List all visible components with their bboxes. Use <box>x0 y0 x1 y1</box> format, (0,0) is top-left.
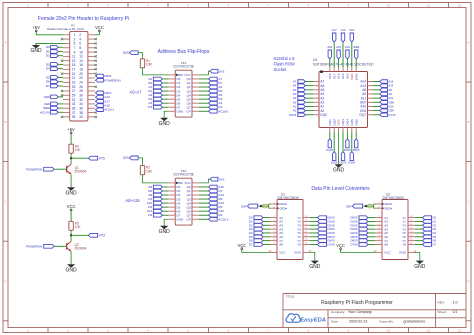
resistor R1 <box>140 59 152 68</box>
svg-text:CD74HC273E: CD74HC273E <box>173 173 195 177</box>
svg-text:WE#: WE# <box>354 73 358 80</box>
svg-text:Raspberry Pi Flash Programmer: Raspberry Pi Flash Programmer <box>321 300 393 306</box>
wire 3V3 to R2 <box>138 158 142 166</box>
ground <box>309 253 321 270</box>
net port D2V5 <box>351 223 376 227</box>
net port D6 <box>415 239 437 243</box>
power flag VCC (Q2) <box>67 204 76 221</box>
ic U1 SN74HC540N <box>269 192 312 259</box>
svg-text:40: 40 <box>79 115 83 119</box>
svg-text:A18: A18 <box>328 73 332 79</box>
svg-text:10R: 10R <box>146 169 153 173</box>
junction node VY3 <box>70 234 72 236</box>
net port A5 <box>293 88 314 92</box>
transistor Q2 2N3904 <box>67 241 87 251</box>
net port POWERON <box>95 78 121 82</box>
ground <box>159 219 171 235</box>
svg-text:DQ3: DQ3 <box>341 119 345 126</box>
svg-text:Date:: Date: <box>331 320 339 324</box>
net port D2 <box>148 205 168 209</box>
svg-text:D5V5: D5V5 <box>348 161 355 165</box>
svg-text:A8: A8 <box>279 243 283 247</box>
svg-text:ACLK1: ACLK1 <box>218 217 228 221</box>
svg-text:B: B <box>4 120 6 124</box>
svg-text:A15: A15 <box>345 45 350 49</box>
wire DIR to OE pins <box>363 204 375 208</box>
resistor R5 <box>69 221 81 230</box>
svg-text:grahamclemo: grahamclemo <box>404 320 426 324</box>
net flag 3V3 (VCC) <box>199 177 225 183</box>
svg-text:Your Company: Your Company <box>348 310 372 314</box>
svg-text:11: 11 <box>427 3 430 7</box>
svg-text:POWERON: POWERON <box>26 245 42 249</box>
svg-text:A18: A18 <box>327 45 332 49</box>
net port A18 <box>95 104 110 108</box>
svg-text:10: 10 <box>387 328 391 332</box>
svg-text:POWERON: POWERON <box>104 78 120 82</box>
svg-text:12: 12 <box>458 3 462 7</box>
wire Q1 emitter to ground <box>70 174 72 186</box>
net port D5 <box>199 205 223 209</box>
svg-text:3V3: 3V3 <box>219 69 225 73</box>
svg-text:D3: D3 <box>148 105 152 109</box>
net port OE# <box>373 100 395 104</box>
net port D2 <box>249 223 270 227</box>
svg-text:TITLE:: TITLE: <box>286 294 295 298</box>
ground <box>414 253 426 270</box>
svg-text:3V3: 3V3 <box>219 177 225 181</box>
svg-text:DQ2: DQ2 <box>332 119 336 126</box>
svg-text:DQ1: DQ1 <box>328 119 332 126</box>
svg-text:ACLK0: ACLK0 <box>218 109 228 113</box>
net port VCC <box>349 28 355 68</box>
net port A8 <box>148 185 168 189</box>
wire 3V3 to R1 <box>138 53 142 59</box>
net port D7V5 <box>373 113 396 117</box>
net port D1 <box>46 50 63 54</box>
svg-text:B: B <box>467 120 469 124</box>
net port D4 <box>415 231 437 235</box>
svg-text:A17: A17 <box>332 28 337 32</box>
svg-text:D4: D4 <box>46 67 50 71</box>
svg-text:U3: U3 <box>313 58 317 62</box>
net port A1 <box>293 104 314 108</box>
wire Q2 emitter to ground <box>70 251 72 263</box>
U3 left/right pins and names <box>314 80 373 117</box>
net port D2V5 <box>310 223 335 227</box>
net port D3 <box>148 213 168 217</box>
svg-text:1.0: 1.0 <box>453 301 458 305</box>
net port D5V5 <box>351 235 376 239</box>
net flag DIR <box>346 204 362 208</box>
svg-text:DQ4: DQ4 <box>346 119 350 126</box>
svg-text:2020-02-13: 2020-02-13 <box>349 320 367 324</box>
net port D1V5 <box>326 132 333 152</box>
net port D0V5 <box>351 216 376 220</box>
svg-text:39: 39 <box>72 115 76 119</box>
net port D7 <box>46 84 63 88</box>
net port A2 <box>293 100 314 104</box>
net port D2 <box>46 54 63 58</box>
wire R2 to FF2 MR# <box>143 175 169 183</box>
wire +5V to pin 1 <box>36 34 63 36</box>
net port D1V5 <box>351 219 376 223</box>
resistor R4 <box>69 144 81 153</box>
svg-text:A15: A15 <box>346 73 350 79</box>
net port A0 <box>148 77 168 81</box>
net port WE# <box>353 45 359 68</box>
net port A9 <box>148 193 168 197</box>
power flag +5V (pin 1) <box>32 25 40 35</box>
net flag 3V3 pull-up 2 <box>123 156 138 160</box>
net port DIR1 <box>95 91 112 95</box>
net port A12 <box>199 209 224 213</box>
net port D4V5 <box>310 231 335 235</box>
svg-text:10K: 10K <box>75 225 82 229</box>
svg-text:GND: GND <box>294 251 302 255</box>
net port D5 <box>199 97 223 101</box>
net port A7 <box>293 80 314 84</box>
net port A3 <box>148 101 168 105</box>
svg-text:GND: GND <box>177 217 185 221</box>
net port D5 <box>46 75 63 79</box>
net port D4V5 <box>344 132 351 152</box>
net flag VY5 <box>88 156 105 160</box>
svg-text:VCC: VCC <box>349 28 355 32</box>
net port D3 <box>249 227 270 231</box>
net port A13 <box>373 84 394 88</box>
net port DIR2 <box>95 74 112 78</box>
svg-text:POWERON: POWERON <box>26 167 42 171</box>
svg-text:12: 12 <box>458 328 462 332</box>
net port ACLK1 <box>95 108 114 112</box>
net port D4 <box>199 105 223 109</box>
svg-text:+5V: +5V <box>32 25 40 30</box>
svg-text:DQ5: DQ5 <box>350 119 354 126</box>
svg-text:D3: D3 <box>148 213 152 217</box>
net port A8 <box>373 88 392 92</box>
net port D1V5 <box>310 219 335 223</box>
wire VCC to pin 2 <box>95 34 100 36</box>
svg-text:D2: D2 <box>46 54 50 58</box>
net port ACLK1 <box>199 217 228 221</box>
net flag 3V3 (VCC) <box>199 69 225 75</box>
net port D7 <box>415 242 437 246</box>
ground (U3) <box>333 164 345 174</box>
svg-text:VCC: VCC <box>336 243 345 248</box>
svg-text:512Kbit x 8: 512Kbit x 8 <box>274 56 296 61</box>
wire R4 to Q1 collector <box>70 153 72 164</box>
section label: 512Kbit x 8 Flash ROM Socket <box>274 56 296 72</box>
power flag VCC <box>237 243 270 253</box>
svg-text:GND: GND <box>30 48 42 54</box>
svg-text:VDD: VDD <box>350 73 354 80</box>
net port D3 <box>148 105 168 109</box>
net port D0V5 <box>310 216 335 220</box>
net port A4 <box>293 92 314 96</box>
net port A17 <box>95 99 110 103</box>
net port ACLK0 <box>199 109 228 113</box>
svg-text:VCC: VCC <box>384 251 391 255</box>
net port D4 <box>46 67 63 71</box>
net port D4V5 <box>351 231 376 235</box>
svg-text:VCC: VCC <box>95 25 104 30</box>
net port D5V5 <box>310 235 335 239</box>
net flag DIR <box>241 204 257 208</box>
svg-text:GND: GND <box>414 264 426 270</box>
connector P1 Header-Female-2.54_2x20 <box>47 23 95 121</box>
svg-text:Socket: Socket <box>274 67 288 72</box>
net port D1 <box>415 219 437 223</box>
net port D2 <box>148 97 168 101</box>
net port D7V5 <box>310 242 335 246</box>
net port A0 <box>293 109 314 113</box>
svg-text:Address Bus Flip-Flops: Address Bus Flip-Flops <box>158 49 210 55</box>
net port A4 <box>199 101 222 105</box>
svg-text:Header-Female-2.54_2x20: Header-Female-2.54_2x20 <box>47 27 84 31</box>
svg-text:GND: GND <box>66 190 78 196</box>
power flag VCC <box>336 243 375 253</box>
svg-text:1/1: 1/1 <box>453 310 458 314</box>
net port D1 <box>148 197 168 201</box>
svg-text:+5V: +5V <box>67 127 75 132</box>
svg-text:10K: 10K <box>75 148 82 152</box>
svg-text:A17: A17 <box>332 73 336 79</box>
svg-text:D7: D7 <box>433 242 437 246</box>
net port D7 <box>199 81 223 85</box>
net port D6V5 <box>310 239 335 243</box>
net port D5 <box>415 235 437 239</box>
ground (Q1) <box>66 187 78 197</box>
net port D1 <box>249 219 270 223</box>
svg-text:Company:: Company: <box>331 310 345 314</box>
svg-text:WE#: WE# <box>353 45 359 49</box>
resistor R2 <box>140 166 152 175</box>
net port OE# <box>44 95 63 99</box>
net port CE# <box>44 102 63 106</box>
net port A5 <box>199 93 222 97</box>
svg-text:A: A <box>467 41 469 45</box>
net port D6 <box>199 197 223 201</box>
svg-text:D7V5: D7V5 <box>351 242 358 246</box>
title block (sheet info) <box>283 294 466 328</box>
svg-text:Female 20x2 Pin Header to Rasp: Female 20x2 Pin Header to Raspberry Pi <box>38 16 129 22</box>
svg-text:D0V5: D0V5 <box>289 113 296 117</box>
power flag VCC (pin 2) <box>95 25 104 35</box>
svg-text:OE2#: OE2# <box>384 206 392 210</box>
svg-text:GND: GND <box>309 264 321 270</box>
net port D4 <box>199 213 223 217</box>
svg-text:3V3: 3V3 <box>123 51 129 55</box>
net port D7 <box>249 242 270 246</box>
net port D0 <box>148 189 168 193</box>
net port POWERON <box>26 167 67 171</box>
svg-text:CP: CP <box>187 109 191 113</box>
svg-text:Y8: Y8 <box>402 243 406 247</box>
svg-text:A0-A7: A0-A7 <box>130 90 143 95</box>
svg-text:VY5: VY5 <box>99 156 105 160</box>
svg-text:D4V5: D4V5 <box>344 148 351 152</box>
svg-text:A16: A16 <box>336 45 341 49</box>
wire junction to flag VY3 <box>71 234 88 236</box>
net port D3V5 <box>310 227 335 231</box>
svg-text:VSS: VSS <box>337 119 341 125</box>
net port POWERON <box>26 244 67 248</box>
net port D6 <box>249 239 270 243</box>
net port A12 <box>341 28 346 68</box>
svg-text:VCC: VCC <box>237 243 246 248</box>
svg-text:A: A <box>4 41 6 45</box>
svg-text:Drawn By:: Drawn By: <box>380 320 394 324</box>
junction node VY5 <box>70 157 72 159</box>
net port A7 <box>199 77 222 81</box>
svg-text:11: 11 <box>427 328 430 332</box>
svg-text:A8: A8 <box>384 243 388 247</box>
svg-text:A12: A12 <box>341 28 346 32</box>
net port D0 <box>415 216 437 220</box>
svg-text:Flash ROM: Flash ROM <box>274 62 296 67</box>
svg-text:A12: A12 <box>341 73 345 79</box>
svg-text:Y8: Y8 <box>297 243 301 247</box>
net port A3 <box>293 96 314 100</box>
svg-text:DIR: DIR <box>241 204 247 208</box>
ground (Q2) <box>66 264 78 274</box>
svg-text:D6V5: D6V5 <box>353 148 360 152</box>
net port D6V5 <box>353 132 360 152</box>
net port D3 <box>46 62 63 66</box>
svg-text:GND: GND <box>177 109 185 113</box>
svg-text:VY3: VY3 <box>99 234 105 238</box>
svg-text:D1V5: D1V5 <box>326 148 333 152</box>
net port A14 <box>199 193 224 197</box>
net port D5V5 <box>348 132 355 165</box>
net port A9 <box>373 92 392 96</box>
net port D0 <box>249 216 270 220</box>
svg-text:D7: D7 <box>249 242 253 246</box>
svg-text:EasyEDA: EasyEDA <box>300 318 326 324</box>
net port A6 <box>199 85 222 89</box>
ic FF1 CD74HC273E <box>168 61 199 117</box>
svg-text:GND: GND <box>159 121 171 127</box>
net port ACLK0 <box>40 110 63 114</box>
wire DIR to OE pins <box>258 204 270 208</box>
svg-text:DQ6: DQ6 <box>354 119 358 126</box>
net port A16 <box>336 45 341 68</box>
svg-text:OE#: OE# <box>44 95 50 99</box>
ic FF2 CD74HC273E <box>168 169 199 225</box>
svg-text:OE2#: OE2# <box>279 206 287 210</box>
svg-text:CD74HC273E: CD74HC273E <box>173 65 195 69</box>
svg-text:DQ7: DQ7 <box>360 113 367 117</box>
svg-text:3V3: 3V3 <box>123 156 129 160</box>
net port D7 <box>199 189 223 193</box>
wire R5 to Q2 collector <box>70 230 72 241</box>
power flag +5V (Q1) <box>67 127 75 144</box>
svg-text:2N3904: 2N3904 <box>75 247 87 251</box>
svg-text:DQ0: DQ0 <box>320 113 327 117</box>
net port D5 <box>249 235 270 239</box>
EasyEDA logo <box>286 314 326 324</box>
svg-text:10R: 10R <box>146 62 153 66</box>
net port D3 <box>415 227 437 231</box>
svg-text:D3V5: D3V5 <box>340 161 347 165</box>
svg-text:D7V5: D7V5 <box>388 113 395 117</box>
wire pin to ground <box>36 42 63 44</box>
ic U3 SST39SF040 socket <box>313 58 374 128</box>
net port A15 <box>199 185 224 189</box>
svg-text:10: 10 <box>387 3 391 7</box>
svg-text:Data Pin Level Converters: Data Pin Level Converters <box>311 186 370 192</box>
wire VSS to ground <box>338 132 340 164</box>
svg-text:GND: GND <box>333 167 345 173</box>
svg-text:D2V5: D2V5 <box>331 161 338 165</box>
net port A11 <box>147 209 168 213</box>
svg-text:Sheet:: Sheet: <box>438 310 447 314</box>
svg-text:GND: GND <box>399 251 407 255</box>
net port D2V5 <box>331 132 338 165</box>
svg-text:SST39SF040-70-4C-NHE SOCKETED: SST39SF040-70-4C-NHE SOCKETED <box>313 62 374 66</box>
net port A13 <box>199 201 224 205</box>
net flag 3V3 pull-up <box>123 51 138 55</box>
svg-text:ACLK1: ACLK1 <box>104 108 114 112</box>
net port D2 <box>415 223 437 227</box>
ic U2 SN74HC540N <box>374 192 417 259</box>
net port D0 <box>148 81 168 85</box>
svg-text:GND: GND <box>66 267 78 273</box>
no-connect marks P1 <box>61 38 97 118</box>
U3 bottom pins <box>328 119 358 132</box>
net port D4 <box>249 231 270 235</box>
wire junction to flag VY5 <box>71 157 88 159</box>
net port A11 <box>373 96 394 100</box>
net port A2 <box>148 93 168 97</box>
net port A15 <box>345 45 350 68</box>
net flag VY3 <box>88 233 105 237</box>
net port D6V5 <box>351 239 376 243</box>
wire R1 to FF1 MR# <box>143 68 169 75</box>
net port D6 <box>46 80 63 84</box>
svg-text:VCC: VCC <box>279 251 286 255</box>
net port A18 <box>327 45 332 68</box>
svg-text:A8-A15: A8-A15 <box>125 198 140 203</box>
net port A1 <box>148 85 168 89</box>
ground <box>159 111 171 127</box>
net port D1 <box>148 89 168 93</box>
net port WE# <box>43 106 63 110</box>
svg-text:GND: GND <box>159 229 171 235</box>
net port A10 <box>147 201 169 205</box>
net port CE# <box>373 109 394 113</box>
svg-text:2N3904: 2N3904 <box>75 170 87 174</box>
net port D0V5 <box>289 113 314 117</box>
svg-text:REV:: REV: <box>438 301 445 305</box>
net port A14 <box>373 80 394 84</box>
svg-text:VCC: VCC <box>67 204 76 209</box>
net port A16 <box>95 95 110 99</box>
net port D0 <box>46 45 63 49</box>
svg-text:ACLK0: ACLK0 <box>40 110 50 114</box>
svg-text:A16: A16 <box>337 73 341 79</box>
net port A17 <box>332 28 337 68</box>
net port D3V5 <box>340 132 347 165</box>
net port D3V5 <box>351 227 376 231</box>
svg-text:D7V5: D7V5 <box>328 242 335 246</box>
U3 top pins <box>328 68 358 81</box>
net port A6 <box>293 84 314 88</box>
svg-text:DIR: DIR <box>346 204 352 208</box>
svg-text:CP: CP <box>187 217 191 221</box>
net port A10 <box>373 104 394 108</box>
